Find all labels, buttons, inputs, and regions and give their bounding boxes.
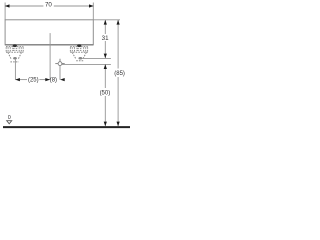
svg-text:(8): (8) [50,78,57,84]
svg-text:70: 70 [45,1,52,8]
svg-text:(25): (25) [28,78,39,84]
svg-text:31: 31 [102,35,109,42]
svg-text:0: 0 [8,115,11,121]
svg-text:(50): (50) [100,90,111,96]
svg-text:(85): (85) [114,71,125,77]
